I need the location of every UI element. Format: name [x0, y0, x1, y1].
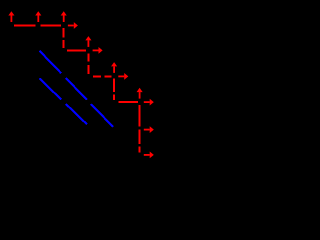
up arrow at node P5 (139.6,102.1) [137, 88, 143, 99]
right arrow at node P6 (139.6,129.6) [144, 126, 154, 133]
right arrow at node P3 (88.4,50.4) [93, 47, 103, 54]
up arrow at node P4 (114.1,76.4) [111, 62, 117, 73]
blue diagonal line L1 (upper) [39, 51, 113, 127]
right arrow at node P7 (139.6,154.9) [144, 152, 154, 159]
wire: red vertical drop x=63.7 (P2 down to corner) [63, 28, 65, 48]
wire: red vertical descent x=139.6 (P5 through P6 to P7) [139, 105, 141, 153]
right arrow at node P4 (114.1,76.4) [118, 73, 128, 80]
wire: red vertical drop x=88.4 (P3 down to corner) [87, 54, 89, 74]
right arrow at node P5 (139.6,102.1) [144, 99, 154, 106]
wire: red staircase step y=102.1 (corner to node P5) [119, 101, 138, 103]
wire: red staircase step y=25.5 (node P0 to node P2) [14, 25, 61, 27]
wire: red vertical drop x=114.1 (P4 down to corner) [113, 79, 115, 100]
up arrow at node P2 (63.7,25.5) [61, 11, 67, 22]
wire: red staircase step y=50.4 (corner to node P3) [67, 49, 86, 51]
right arrow at node P2 (63.7,25.5) [68, 22, 78, 29]
blue diagonal line L2 (lower) [40, 79, 87, 125]
up arrow at node P1 (38.3,25.5) [35, 11, 41, 22]
up arrow at node P3 (88.4,50.4) [85, 36, 91, 47]
up arrow at node P0 (11.4,25.5) [8, 11, 14, 22]
wire: red staircase step y=76.4 (corner to node P4) [93, 75, 112, 77]
